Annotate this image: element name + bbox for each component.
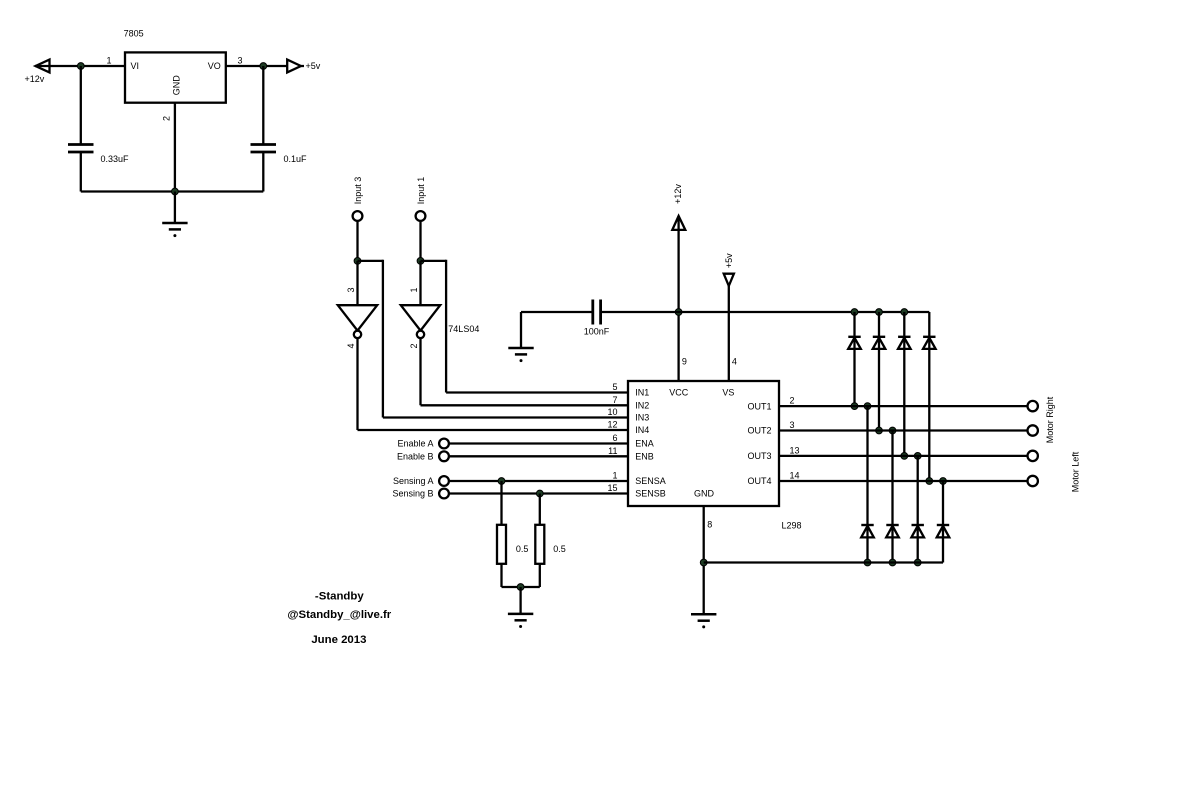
node OUT3 lower diode — [914, 453, 921, 460]
wire bus to ground — [520, 312, 522, 348]
label +12v rail — [673, 184, 683, 204]
capacitor C1 0.33uF — [68, 145, 94, 153]
node sense rail junction — [517, 584, 524, 591]
pin 2 label — [162, 116, 172, 121]
wire D5 anode down — [866, 525, 868, 563]
pin label IN2 — [635, 401, 649, 411]
diode D3 — [898, 337, 911, 349]
svg-text:OUT1: OUT1 — [747, 401, 771, 411]
svg-text:ENB: ENB — [635, 452, 654, 462]
wire Input1 down — [419, 221, 421, 261]
svg-text:OUT4: OUT4 — [747, 476, 771, 486]
svg-text:0.5: 0.5 — [516, 544, 529, 554]
pin 2 label inverter — [409, 343, 419, 348]
svg-text:2: 2 — [162, 116, 172, 121]
svg-text:14: 14 — [790, 471, 800, 481]
wire D7 cathode to OUT3 — [917, 456, 919, 525]
pin 9 label — [682, 356, 687, 366]
diode D5 — [861, 525, 874, 537]
svg-text:SENSA: SENSA — [635, 476, 666, 486]
svg-text:3: 3 — [237, 56, 242, 66]
wire ENA — [449, 442, 628, 444]
label Enable B — [397, 452, 434, 462]
pin label VCC — [669, 388, 689, 398]
terminal OUT1 — [1028, 401, 1038, 411]
pin 3 number — [790, 420, 795, 430]
svg-text:IN3: IN3 — [635, 413, 649, 423]
wire Input3 to inverter — [356, 261, 358, 305]
pin 14 number — [790, 471, 800, 481]
signature @Standby_@live.fr — [287, 609, 391, 621]
terminal OUT2 — [1028, 425, 1038, 435]
svg-text:IN4: IN4 — [635, 425, 649, 435]
wire D3 cathode — [903, 312, 905, 337]
inverter U2A bubble — [354, 331, 361, 338]
diode D2 — [873, 337, 886, 349]
diode D8 — [937, 525, 950, 537]
wire Input1 branch right — [421, 260, 447, 262]
svg-text:1: 1 — [612, 471, 617, 481]
node SENSB junction — [536, 490, 543, 497]
pin label VI — [131, 61, 140, 71]
pin label OUT4 — [747, 476, 771, 486]
diode D1 — [848, 337, 861, 349]
svg-text:Motor Left: Motor Left — [1070, 451, 1080, 492]
wire GND pin down — [703, 506, 705, 614]
svg-text:Input 1: Input 1 — [416, 177, 426, 205]
wire +12v bus — [601, 311, 930, 313]
wire OUT3 to motor — [779, 455, 1028, 457]
pin label SENSA — [635, 476, 666, 486]
pin 7 number — [612, 395, 617, 405]
svg-text:L298: L298 — [782, 520, 802, 530]
wire inverter out down — [419, 338, 421, 405]
svg-text:IN2: IN2 — [635, 401, 649, 411]
svg-text:+12v: +12v — [673, 184, 683, 204]
wire D6 anode down — [891, 525, 893, 563]
wire D4 anode to OUT4 — [928, 337, 930, 481]
pin 5 number — [612, 382, 617, 392]
pin 15 number — [607, 483, 617, 493]
wire D4 cathode — [928, 312, 930, 337]
IC U3 L298 body — [628, 381, 779, 506]
wire D8 anode down — [942, 525, 944, 563]
svg-text:5: 5 — [612, 382, 617, 392]
node +12v bus to D2 — [876, 309, 883, 316]
wire IN1 horizontal — [446, 391, 628, 393]
diode D4 — [923, 337, 936, 349]
node OUT3 upper diode — [901, 453, 908, 460]
svg-text:11: 11 — [608, 446, 617, 456]
node ground bus D6 — [889, 559, 896, 566]
signature -Standby — [315, 590, 364, 602]
node OUT2 lower diode — [889, 427, 896, 434]
svg-text:1: 1 — [106, 56, 111, 66]
capacitor C2 0.1uF — [251, 145, 277, 153]
pin 3 label inverter — [346, 287, 356, 292]
ground sense resistors — [508, 614, 533, 628]
wire OUT4 to motor — [779, 480, 1028, 482]
svg-text:-Standby: -Standby — [315, 590, 364, 602]
node SENSA junction — [498, 478, 505, 485]
pin label VS — [722, 388, 734, 398]
wire ground rail — [81, 190, 263, 192]
node OUT1 lower diode — [864, 403, 871, 410]
label 0.1uF — [284, 154, 308, 164]
ground 100nF — [508, 348, 533, 362]
svg-text:12: 12 — [607, 420, 617, 430]
node Input3 junction — [354, 258, 361, 265]
node ground rail junction — [172, 188, 179, 195]
svg-text:Enable B: Enable B — [397, 452, 434, 462]
pin label IN4 — [635, 425, 649, 435]
pin label SENSB — [635, 489, 666, 499]
pin label GND — [172, 75, 182, 96]
wire IN3 vertical — [382, 260, 384, 418]
svg-text:4: 4 — [346, 343, 356, 348]
pin 8 label — [707, 520, 712, 530]
svg-text:10: 10 — [607, 407, 617, 417]
wire C1 to ground rail — [80, 152, 82, 192]
pin 11 number — [608, 446, 617, 456]
wire IN2 horizontal — [421, 404, 629, 406]
resistor R1 0.5 — [497, 525, 506, 564]
diode D7 — [911, 525, 924, 537]
svg-text:100nF: 100nF — [584, 327, 610, 337]
+12v rail arrow — [672, 216, 685, 230]
wire D7 anode down — [917, 525, 919, 563]
pin label ENB — [635, 452, 654, 462]
wire to ground — [174, 192, 176, 224]
label R2 0.5 — [553, 544, 566, 554]
svg-text:Motor Right: Motor Right — [1045, 396, 1055, 443]
svg-text:OUT2: OUT2 — [747, 426, 771, 436]
wire junction to C1 — [80, 66, 82, 145]
wire D1 anode to OUT1 — [853, 337, 855, 406]
svg-text:7805: 7805 — [124, 29, 144, 39]
wire inverter out down — [356, 338, 358, 430]
wire Input3 down — [356, 221, 358, 261]
svg-text:0.33uF: 0.33uF — [101, 154, 130, 164]
diode D6 — [886, 525, 899, 537]
svg-text:+12v: +12v — [25, 74, 45, 84]
wire to ground — [519, 587, 521, 614]
pin 2 number — [790, 396, 795, 406]
svg-text:8: 8 — [707, 520, 712, 530]
pin 4 label inverter — [346, 343, 356, 348]
wire ENB — [449, 455, 628, 457]
wire diode ground bus — [704, 561, 943, 563]
svg-text:+5v: +5v — [306, 61, 321, 71]
+5v rail arrow — [724, 274, 734, 286]
label Motor Right — [1045, 396, 1055, 443]
label Motor Left — [1070, 451, 1080, 492]
wire D1 cathode — [853, 312, 855, 337]
ground L298 — [691, 614, 716, 628]
wire SENSB to R2 — [539, 494, 541, 525]
label +5v rail — [724, 253, 734, 268]
wire GND pin down — [174, 103, 176, 192]
wire D2 cathode — [878, 312, 880, 337]
pin 6 number — [612, 433, 617, 443]
wire SENSA to R1 — [500, 481, 502, 525]
wire D8 cathode to OUT4 — [942, 481, 944, 525]
inverter U2B triangle — [401, 305, 440, 330]
svg-text:ENA: ENA — [635, 439, 654, 449]
wire sense ground rail — [502, 586, 540, 588]
pin label VO — [208, 61, 221, 71]
terminal Sensing B — [439, 489, 449, 499]
node OUT2 upper diode — [876, 427, 883, 434]
node OUT4 upper diode — [926, 478, 933, 485]
svg-text:GND: GND — [172, 75, 182, 96]
wire junction to C2 — [262, 66, 264, 145]
pin label IN3 — [635, 413, 649, 423]
label 7805 — [124, 29, 144, 39]
wire +12v to VCC — [677, 216, 679, 381]
svg-text:15: 15 — [607, 483, 617, 493]
node +12v bus junction — [675, 309, 682, 316]
+12v input arrow — [36, 60, 50, 73]
svg-text:VS: VS — [722, 388, 734, 398]
pin label OUT3 — [747, 451, 771, 461]
inverter U2A triangle — [338, 305, 377, 330]
resistor R2 0.5 — [535, 525, 544, 564]
wire C2 to ground rail — [262, 152, 264, 192]
svg-text:Sensing B: Sensing B — [392, 489, 433, 499]
node GND diode-bus junction — [700, 559, 707, 566]
svg-text:0.1uF: 0.1uF — [284, 154, 308, 164]
label R1 0.5 — [516, 544, 529, 554]
wire bus left of C3 — [521, 311, 593, 313]
svg-text:1: 1 — [409, 287, 419, 292]
node OUT1 upper diode — [851, 403, 858, 410]
svg-text:SENSB: SENSB — [635, 489, 666, 499]
wire R2 to rail — [539, 564, 541, 587]
label Sensing B — [392, 489, 433, 499]
pin 1 label — [106, 56, 111, 66]
pin label ENA — [635, 439, 654, 449]
terminal OUT3 — [1028, 451, 1038, 461]
node +12v bus to D1 — [851, 309, 858, 316]
wire D6 cathode to OUT2 — [891, 431, 893, 526]
pin label GND — [694, 489, 715, 499]
wire SENSA — [449, 480, 628, 482]
terminal Enable B — [439, 451, 449, 461]
pin label OUT1 — [747, 401, 771, 411]
signature June 2013 — [311, 634, 366, 646]
pin label IN1 — [635, 388, 649, 398]
pin 10 number — [607, 407, 617, 417]
svg-text:74LS04: 74LS04 — [448, 324, 479, 334]
pin 1 number — [612, 471, 617, 481]
wire D2 anode to OUT2 — [878, 337, 880, 431]
terminal Input 3 — [353, 211, 363, 221]
node +12v bus to D3 — [901, 309, 908, 316]
label Input 1 — [416, 177, 426, 205]
+5v output arrow — [287, 60, 301, 73]
wire OUT1 to motor — [779, 405, 1028, 407]
wire IN1 vertical — [445, 260, 447, 393]
label 74LS04 — [448, 324, 479, 334]
pin 12 number — [607, 420, 617, 430]
terminal Input 1 — [416, 211, 426, 221]
terminal Enable A — [439, 439, 449, 449]
wire SENSB — [449, 492, 628, 494]
wire Input3 branch right — [358, 260, 383, 262]
label Enable A — [397, 439, 433, 449]
label 100nF — [584, 327, 610, 337]
svg-text:13: 13 — [790, 445, 800, 455]
pin 1 label inverter — [409, 287, 419, 292]
terminal Sensing A — [439, 476, 449, 486]
wire VO to +5v — [226, 65, 304, 67]
svg-text:4: 4 — [732, 356, 737, 366]
label Input 3 — [353, 177, 363, 205]
svg-text:2: 2 — [790, 396, 795, 406]
wire OUT2 to motor — [779, 429, 1028, 431]
wire IN4 horizontal — [358, 429, 629, 431]
pin 3 label — [237, 56, 242, 66]
pin label OUT2 — [747, 426, 771, 436]
regulator U1 7805 body — [125, 52, 226, 102]
wire D5 cathode to OUT1 — [866, 406, 868, 525]
wire D3 anode to OUT3 — [903, 337, 905, 456]
svg-text:Sensing A: Sensing A — [393, 476, 434, 486]
ground regulator — [162, 223, 187, 237]
pin 13 number — [790, 445, 800, 455]
wire IN3 horizontal — [383, 416, 628, 418]
wire +5v to VS — [728, 286, 730, 381]
svg-text:IN1: IN1 — [635, 388, 649, 398]
svg-text:7: 7 — [612, 395, 617, 405]
svg-text:@Standby_@live.fr: @Standby_@live.fr — [287, 609, 391, 621]
svg-text:2: 2 — [409, 343, 419, 348]
node ground bus D7 — [914, 559, 921, 566]
label Sensing A — [393, 476, 434, 486]
node OUT4 lower diode — [940, 478, 947, 485]
inverter U2B bubble — [417, 331, 424, 338]
svg-text:June 2013: June 2013 — [311, 634, 366, 646]
svg-text:0.5: 0.5 — [553, 544, 566, 554]
node ground bus D5 — [864, 559, 871, 566]
svg-text:VO: VO — [208, 61, 221, 71]
svg-text:Input 3: Input 3 — [353, 177, 363, 205]
capacitor C3 100nF — [593, 300, 601, 325]
label +12v — [25, 74, 45, 84]
svg-text:VCC: VCC — [669, 388, 689, 398]
node +5v junction — [260, 63, 267, 70]
svg-text:GND: GND — [694, 489, 715, 499]
svg-text:Enable A: Enable A — [397, 439, 433, 449]
svg-text:3: 3 — [790, 420, 795, 430]
label +5v — [306, 61, 321, 71]
svg-text:VI: VI — [131, 61, 140, 71]
pin 4 label — [732, 356, 737, 366]
node Input1 junction — [417, 258, 424, 265]
svg-text:6: 6 — [612, 433, 617, 443]
label L298 — [782, 520, 802, 530]
wire +12v to VI — [35, 65, 125, 67]
svg-text:+5v: +5v — [724, 253, 734, 268]
node +12v junction — [77, 63, 84, 70]
terminal OUT4 — [1028, 476, 1038, 486]
wire R1 to rail — [500, 564, 502, 587]
svg-text:9: 9 — [682, 356, 687, 366]
svg-text:OUT3: OUT3 — [747, 451, 771, 461]
label 0.33uF — [101, 154, 130, 164]
svg-text:3: 3 — [346, 287, 356, 292]
wire Input1 to inverter — [419, 261, 421, 305]
